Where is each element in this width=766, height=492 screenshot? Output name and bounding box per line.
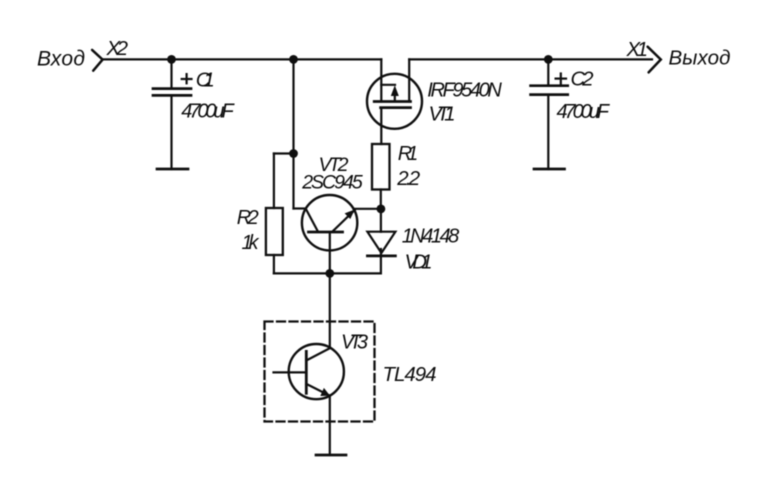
svg-text:1N4148: 1N4148 [402, 225, 460, 247]
svg-text:VT1: VT1 [429, 103, 456, 126]
svg-text:1k: 1k [242, 232, 260, 254]
svg-text:VT3: VT3 [341, 331, 368, 353]
svg-text:R1: R1 [398, 143, 419, 165]
svg-text:VD1: VD1 [405, 250, 433, 273]
svg-text:C1: C1 [196, 68, 215, 91]
svg-text:R2: R2 [237, 207, 259, 229]
svg-text:Вход: Вход [37, 47, 85, 70]
svg-text:Выход: Выход [669, 47, 731, 70]
svg-text:4700uF: 4700uF [181, 101, 235, 123]
svg-text:TL494: TL494 [383, 363, 437, 386]
svg-text:4700uF: 4700uF [557, 101, 611, 123]
svg-text:X2: X2 [106, 37, 129, 60]
svg-text:C2: C2 [571, 67, 595, 90]
svg-text:2SC945: 2SC945 [301, 172, 363, 194]
svg-text:2.2: 2.2 [396, 167, 421, 190]
svg-text:X1: X1 [626, 38, 649, 61]
svg-text:IRF9540N: IRF9540N [427, 79, 502, 101]
